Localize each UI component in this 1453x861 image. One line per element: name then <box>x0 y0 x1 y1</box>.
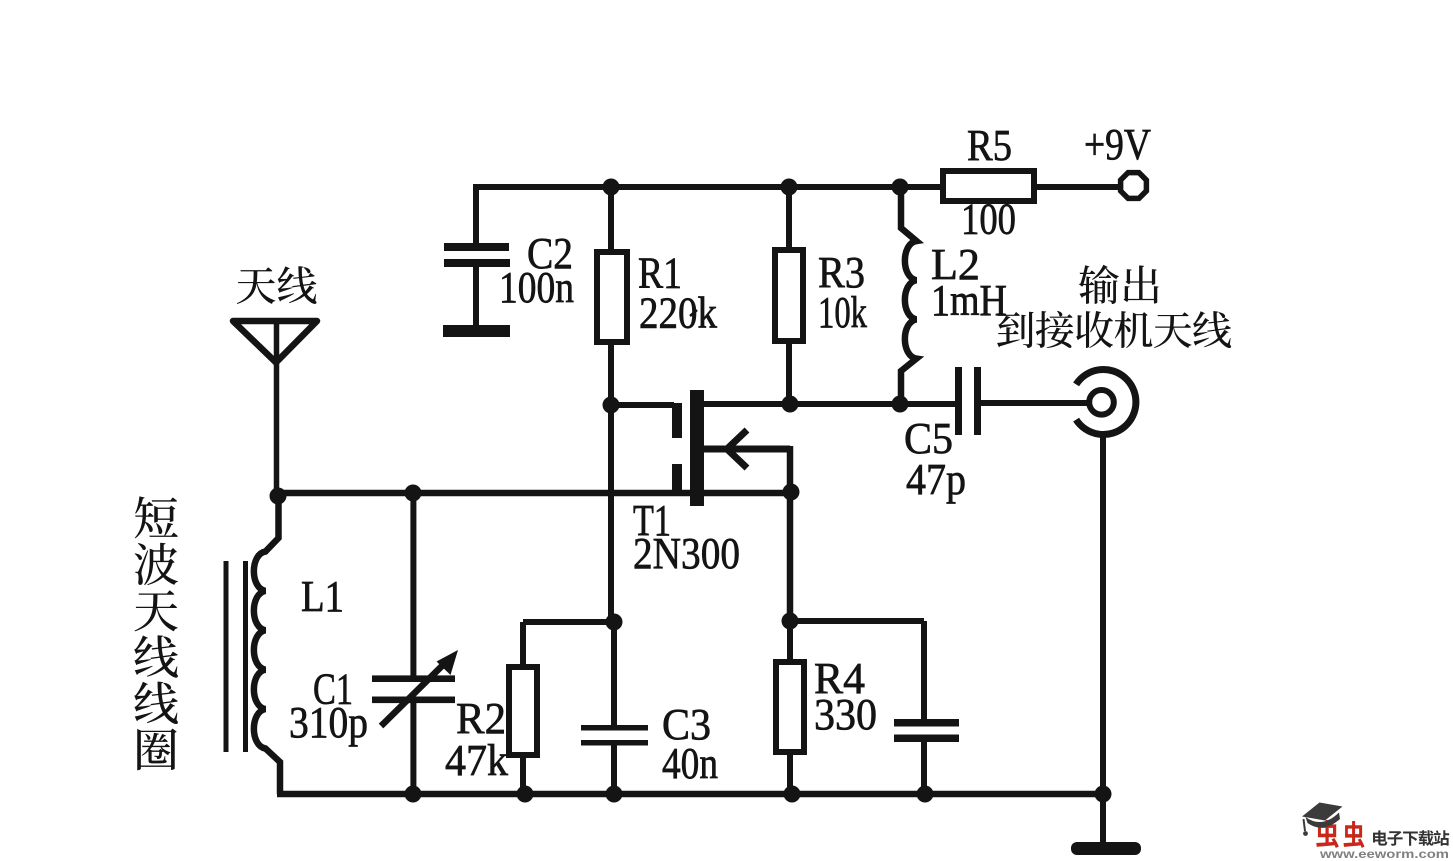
svg-text:40n: 40n <box>662 739 718 788</box>
svg-text:100n: 100n <box>499 263 574 312</box>
svg-text:220k: 220k <box>639 289 717 338</box>
svg-text:1mH: 1mH <box>931 276 1007 325</box>
svg-text:www.eeworm.com: www.eeworm.com <box>1319 847 1449 861</box>
svg-text:L1: L1 <box>301 572 344 621</box>
svg-text:2N300: 2N300 <box>633 529 740 578</box>
svg-text:10k: 10k <box>818 288 867 337</box>
svg-text:47k: 47k <box>445 736 508 785</box>
svg-text:310p: 310p <box>289 698 368 747</box>
svg-text:330: 330 <box>814 690 877 739</box>
svg-text:R5: R5 <box>967 121 1012 170</box>
svg-text:47p: 47p <box>906 455 966 504</box>
svg-text:+9V: +9V <box>1084 120 1151 169</box>
svg-text:100: 100 <box>961 195 1016 244</box>
